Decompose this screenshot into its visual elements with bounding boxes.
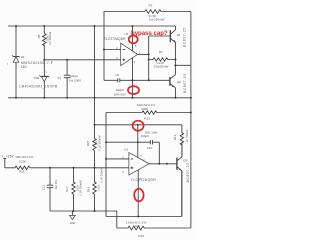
resistor R6 (37, 31, 52, 45)
svg-text:+15V: +15V (6, 154, 14, 158)
node out-V5 (148, 53, 150, 55)
svg-text:LM4040DIM3_1NOPB: LM4040DIM3_1NOPB (19, 84, 57, 88)
zener diode Z1 (12, 55, 53, 69)
resistor R14 (173, 125, 189, 157)
svg-text:BC807-25: BC807-25 (183, 73, 187, 93)
capacitor C6 row (104, 73, 170, 97)
wire V8 pin8 U1B (137, 125, 139, 158)
svg-text:R16: R16 (19, 170, 25, 174)
capacitor C7 (57, 60, 81, 98)
node V3-H2 (94, 97, 96, 99)
svg-text:0.1% 100mW: 0.1% 100mW (80, 180, 83, 196)
resistor R17 (65, 168, 83, 211)
resistor R19 row (117, 220, 191, 238)
svg-text:U1: U1 (124, 32, 128, 36)
svg-text:1%100mW: 1%100mW (154, 65, 169, 69)
svg-text:C10: C10 (147, 146, 153, 150)
svg-text:R3: R3 (148, 3, 152, 7)
svg-text:102K: 102K (19, 160, 26, 164)
node C6row-V5 (148, 79, 150, 81)
wire +in row U1A (44, 59, 120, 61)
red circle bypass U1A pin8 (129, 36, 138, 44)
svg-text:TLC072AQDR: TLC072AQDR (104, 37, 126, 41)
power +15V (2, 154, 14, 168)
wire V5 output node (149, 36, 171, 80)
red circle U1B pin4 (134, 189, 143, 202)
svg-text:Q1: Q1 (177, 33, 181, 37)
resistor R15 (86, 135, 101, 168)
node C11 tap (49, 167, 51, 169)
node V2-H2 (43, 97, 45, 99)
svg-text:Q2: Q2 (177, 80, 181, 84)
node H4 left (94, 124, 96, 126)
wire V6 (105, 113, 107, 217)
node pin4-C6row (132, 79, 134, 81)
wire U1B output row (149, 163, 177, 165)
node R7-V5 (148, 59, 150, 61)
svg-text:GND: GND (70, 222, 76, 225)
red circle U1A pin4 (128, 86, 139, 94)
node R18 top (94, 167, 96, 169)
wire pin4 stub U1B (137, 170, 139, 217)
svg-text:1% 100mW: 1% 100mW (149, 18, 165, 22)
transistor Q5 BC807-25 (177, 142, 190, 216)
svg-text:R7: R7 (159, 50, 163, 54)
svg-text:15V: 15V (21, 65, 28, 69)
wire pin4 stub U1A (132, 58, 134, 98)
node P3 left (43, 59, 45, 61)
capacitor C11 (42, 168, 58, 211)
shunt reference VR1 (19, 71, 57, 89)
node V3-H1 (94, 25, 96, 27)
wire GND row (50, 210, 117, 212)
wire H4 row (95, 124, 182, 126)
svg-text:R6: R6 (37, 34, 41, 38)
svg-text:R13: R13 (144, 116, 150, 120)
svg-text:1.02K: 1.02K (98, 184, 101, 191)
op-amp U1B (122, 147, 156, 181)
node C7 tap (66, 59, 68, 61)
op-amp U1A (104, 32, 141, 66)
node R17 gnd (73, 210, 75, 212)
svg-text:100mW 0.1%: 100mW 0.1% (15, 155, 33, 159)
wire pin8 stub U1A (132, 26, 134, 51)
resistor R16 (15, 155, 34, 173)
svg-text:102K: 102K (133, 224, 140, 228)
node pin8-H1 (132, 25, 134, 27)
wire right spine (190, 12, 192, 229)
node C10 output (158, 163, 160, 165)
resistor R3 (145, 3, 165, 21)
wire +in row B (5, 167, 129, 169)
resistor R13 row (106, 103, 191, 120)
wire -in row U1B (106, 158, 129, 160)
svg-text:Q5: Q5 (183, 158, 187, 162)
svg-text:1% 100V: 1% 100V (69, 78, 81, 82)
node R7 right (174, 59, 176, 61)
node C7-H2 (66, 97, 68, 99)
svg-text:BC817-25: BC817-25 (183, 27, 187, 47)
svg-text:C7: C7 (57, 76, 61, 80)
svg-text:100pF: 100pF (115, 88, 124, 92)
svg-text:0.1% 100mW: 0.1% 100mW (101, 167, 104, 183)
wire H1 top rail (8, 25, 175, 27)
svg-text:R19: R19 (138, 234, 144, 238)
svg-text:TLC072AQDR: TLC072AQDR (131, 178, 157, 182)
wire chain V7 upper (94, 98, 96, 139)
node pin4 U1B wireC (137, 216, 139, 218)
svg-text:C6: C6 (115, 73, 119, 77)
wire C V- row (106, 171, 182, 217)
svg-text:1uF 50V: 1uF 50V (55, 179, 58, 189)
wire -in row U1A (104, 49, 121, 51)
wire U1A output (138, 53, 149, 55)
node load tap (174, 64, 176, 66)
svg-text:R15: R15 (86, 140, 90, 146)
node pin4-H2 (132, 97, 134, 99)
node R18 gnd (94, 210, 96, 212)
svg-text:1% 100mW: 1% 100mW (49, 31, 52, 45)
svg-text:Z1: Z1 (21, 55, 25, 59)
node V1-H1 (15, 25, 17, 27)
svg-text:1% 750mW: 1% 750mW (186, 129, 189, 143)
node spine R13 (190, 112, 192, 114)
node H4 C10 tap (137, 124, 139, 126)
transistor Q3 BC807-25 (170, 73, 187, 98)
node spine-H2 (190, 97, 192, 99)
svg-text:10% 50V: 10% 50V (114, 93, 126, 97)
node R17 tap (73, 167, 75, 169)
svg-text:VR1: VR1 (34, 76, 40, 80)
node V2-H1 (43, 25, 45, 27)
svg-text:C11: C11 (42, 185, 46, 191)
resistor R18 (87, 167, 104, 211)
wire V3 (94, 26, 96, 98)
node output row (166, 163, 168, 165)
node -in V6 (105, 158, 107, 160)
wire V2 (43, 26, 45, 98)
svg-text:0.1% 100mW: 0.1% 100mW (98, 135, 101, 151)
wire H2 mid rail (8, 97, 191, 99)
node C10 left (137, 141, 139, 143)
red circle node H4 (133, 121, 144, 131)
wire emitter to spine (175, 60, 191, 75)
wire feedback V4 + R3 row (104, 12, 191, 81)
node -in junction (103, 49, 105, 51)
node V1-H2 (15, 97, 17, 99)
transistor Q4 BC817-25 (170, 26, 186, 60)
wire V1 (15, 26, 17, 98)
svg-text:R18: R18 (87, 186, 91, 192)
ground (70, 211, 76, 225)
svg-text:100pF: 100pF (141, 134, 150, 138)
svg-text:U1: U1 (124, 147, 128, 151)
node Q3 emitter H2 (174, 97, 176, 99)
svg-text:100K: 100K (141, 107, 148, 111)
svg-text:R14: R14 (173, 134, 177, 140)
resistor R7 (149, 50, 176, 69)
svg-text:BC807-25: BC807-25 (186, 162, 190, 182)
svg-text:R17: R17 (65, 186, 69, 192)
wire gnd drop to R19 row (116, 211, 118, 228)
capacitor C10 (106, 130, 159, 163)
